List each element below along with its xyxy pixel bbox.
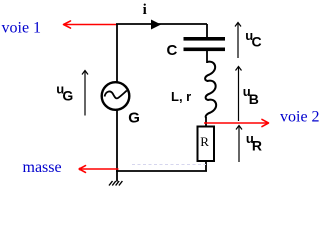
wire: capacitor to inductor [206, 51, 208, 63]
svg-text:masse: masse [23, 159, 62, 176]
svg-text:R: R [200, 134, 209, 149]
wire: bottom horizontal [116, 170, 207, 172]
voltage arrow uR [236, 126, 242, 163]
node masse arrow (red) [79, 166, 119, 173]
voltage arrow uB [236, 67, 242, 122]
resistor R (box) [198, 127, 215, 162]
svg-text:G: G [128, 110, 140, 127]
svg-text:C: C [167, 42, 178, 59]
svg-text:voie 2: voie 2 [280, 109, 320, 126]
faint dashed remnant line above bottom wire [132, 164, 206, 166]
svg-text:voie 1: voie 1 [2, 20, 42, 37]
inductor L,r (coil) [205, 62, 216, 118]
capacitor C (plates) [184, 37, 226, 51]
wire: top horizontal [116, 23, 207, 25]
wire: inductor to resistor [205, 117, 207, 127]
voltage arrow uC [235, 23, 241, 59]
svg-text:i: i [143, 2, 147, 18]
wire: right vertical down to capacitor [206, 24, 208, 38]
node voie 1 arrow (red) [64, 21, 117, 28]
svg-text:C: C [252, 34, 262, 50]
generator G (AC source circle) [102, 82, 130, 110]
wire: resistor to bottom [205, 160, 207, 171]
svg-text:G: G [62, 87, 73, 103]
node voie 2 arrow (red) [204, 119, 269, 126]
current arrow i [151, 20, 161, 30]
generator sine symbol [105, 91, 127, 99]
svg-text:R: R [252, 138, 262, 154]
svg-text:L, r: L, r [171, 89, 191, 104]
svg-text:B: B [249, 91, 259, 107]
ground [109, 181, 122, 186]
wire: left vertical (generator branch) [116, 24, 118, 182]
voltage arrow uG [82, 71, 88, 116]
